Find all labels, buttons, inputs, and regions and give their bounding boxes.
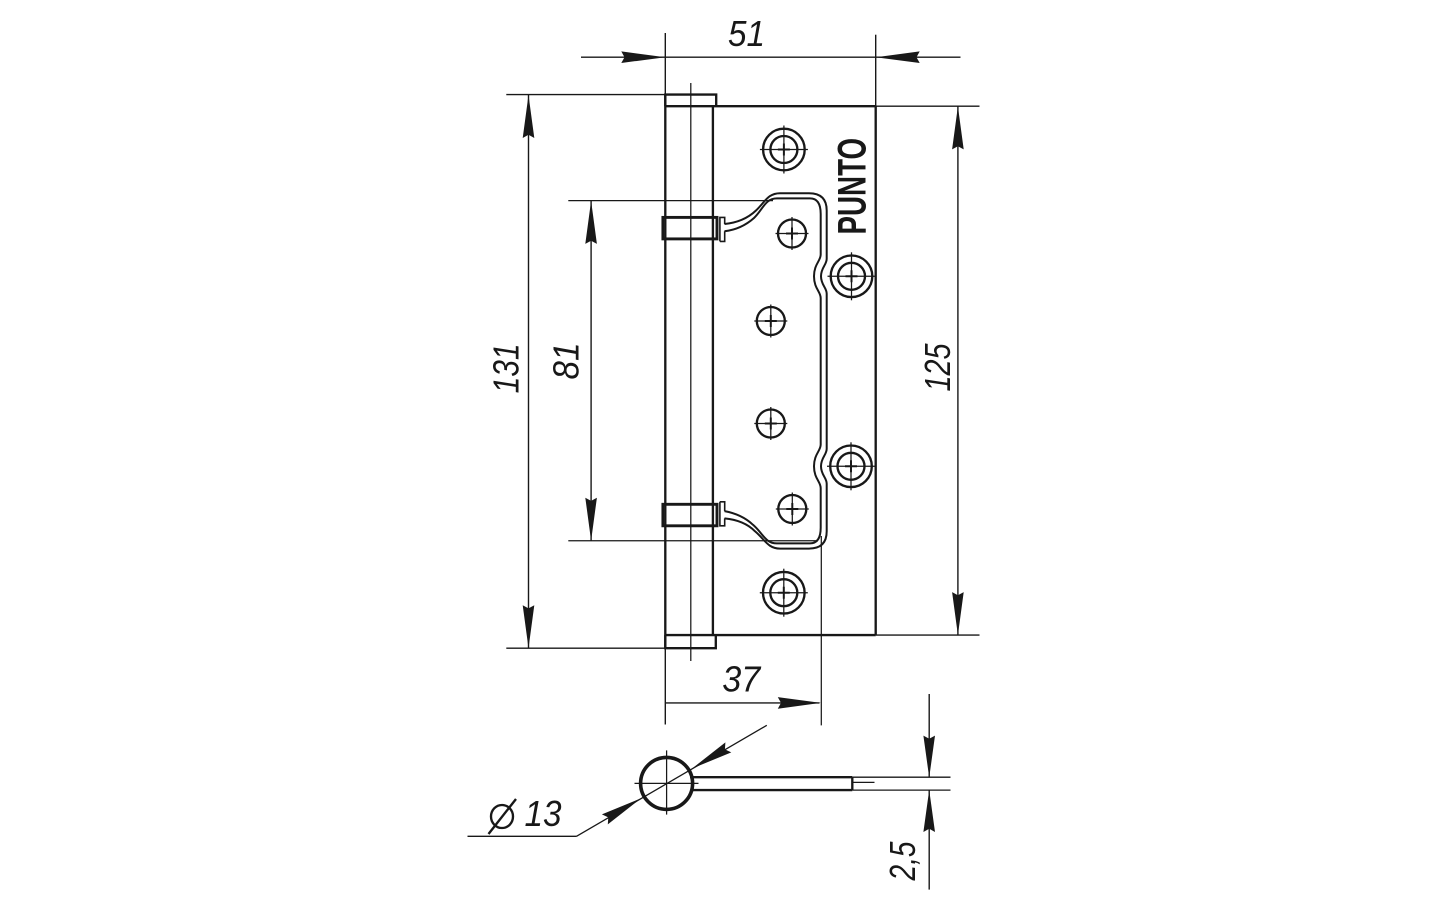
plate bottom extension (125) (876, 634, 980, 636)
dimension 125: dim line (957, 106, 959, 635)
svg-text:PUNTO: PUNTO (831, 138, 875, 235)
screw hole 7 (small) (778, 495, 806, 523)
dimension 125: bottom arrow (952, 592, 964, 635)
bottom view: leaf top line (690, 776, 852, 778)
dimension 81: bottom arrow (585, 498, 597, 541)
diameter leader: diagonal line (577, 725, 767, 836)
bottom view: leaf bottom line (691, 789, 852, 791)
leaf contour inner line (725, 198, 821, 543)
screw hole 3 (double, right) (831, 255, 873, 297)
svg-text:131: 131 (486, 343, 527, 393)
hole 4 crosshair (754, 305, 787, 338)
hole 5 crosshair (754, 407, 787, 440)
dimension 81: top arrow (585, 201, 597, 244)
screw hole 1 (double, top) (763, 129, 805, 171)
dimension 131: extension bottom (506, 647, 665, 649)
plate right edge (875, 106, 877, 635)
dimension 51: right arrow (876, 51, 920, 63)
dimension 51: left arrow (621, 51, 665, 63)
dimension 131: top arrow (523, 95, 535, 138)
dimension 2,5: upper arrow (down) (923, 736, 935, 778)
dimension 37: dim line (665, 702, 819, 704)
lower knuckle (663, 504, 717, 526)
barrel right edge (712, 106, 714, 635)
barrel left edge + extension line for 51/37 (664, 33, 666, 725)
svg-text:125: 125 (917, 343, 958, 392)
diameter leader: horizontal segment (468, 835, 577, 837)
dimension 131: extension top (506, 94, 665, 96)
leaf contour outer line (725, 193, 827, 548)
plate bottom edge (665, 634, 875, 636)
upper knuckle (663, 217, 717, 239)
dimension 2,5: extension top (852, 776, 950, 778)
svg-text:37: 37 (722, 659, 762, 700)
screw hole 6 (double, right) (830, 446, 872, 488)
dimension 2,5: extension bottom (852, 789, 950, 791)
hole 2 crosshair (776, 217, 809, 250)
barrel bottom cap (665, 635, 716, 648)
hole 6 crosshair (827, 442, 875, 490)
plate top edge (665, 105, 875, 107)
barrel top cap (665, 95, 716, 107)
bottom view: crosshair (635, 750, 699, 814)
screw hole 5 (small) (757, 410, 785, 438)
screw hole 4 (small) (757, 307, 785, 335)
hole 7 crosshair (776, 493, 809, 526)
svg-text:13: 13 (525, 793, 562, 834)
lower leaf wrap strip (720, 502, 725, 526)
screw hole 8 (double, bottom) (763, 572, 805, 614)
dimension 51: dim line (581, 56, 961, 58)
bottom view: leaf centerline stub (852, 781, 874, 783)
diameter symbol (489, 799, 517, 834)
plate right extension (51) (875, 35, 877, 107)
hole 8 crosshair (760, 569, 808, 617)
diameter leader: lower arrow (602, 798, 641, 824)
bottom view: leaf end cap (851, 777, 853, 790)
svg-text:81: 81 (546, 343, 587, 380)
svg-text:2,5: 2,5 (882, 841, 923, 882)
dimension 2,5: upper dim line (928, 694, 930, 777)
dimension 81: extension top (568, 200, 773, 202)
dimension 131: dim line (528, 95, 530, 648)
svg-text:51: 51 (728, 13, 765, 54)
upper leaf wrap strip (720, 217, 725, 241)
bottom view: barrel circle (641, 757, 693, 809)
pin centerline (690, 83, 692, 661)
screw hole 2 (small) (778, 220, 806, 248)
dimension 2,5: lower dim line (928, 790, 930, 890)
hole center marks (765, 144, 858, 599)
dimension 37: right extension (820, 536, 822, 725)
hole 3 crosshair (828, 252, 876, 300)
dimension 81: extension bottom (568, 540, 818, 542)
dimension 125: top arrow (952, 106, 964, 149)
dimension 81: dim line (590, 201, 592, 541)
diameter leader: upper arrow (692, 742, 731, 768)
dimension 2,5: lower arrow (up) (923, 790, 935, 832)
plate top extension (125) (876, 105, 980, 107)
hole 1 crosshair (760, 126, 808, 174)
dimension 131: bottom arrow (523, 605, 535, 648)
dimension 37: right arrow (778, 697, 821, 709)
